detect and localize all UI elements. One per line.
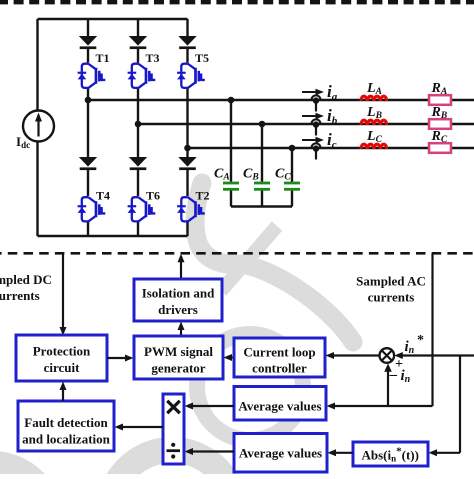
summing junction (380, 348, 395, 363)
transistor T1 (78, 64, 106, 89)
wire: divider result to Fault detection arrow (115, 424, 164, 431)
wire: Average values 1 to multiplier arrow (185, 403, 235, 410)
node CC tap (289, 145, 296, 152)
wire: in feedback arrow into summing junction (384, 364, 392, 407)
resistor RB (429, 119, 451, 129)
svg-text:*: * (417, 333, 424, 348)
svg-text:Abs(in*(t)): Abs(in*(t)) (362, 446, 419, 464)
svg-text:circuit: circuit (44, 360, 81, 375)
label Sampled DC currents (0, 272, 52, 303)
box PWM signal generator (134, 336, 223, 379)
node a (leg1 midpoint) (85, 97, 92, 104)
arrow ib (302, 113, 324, 120)
diode D1 (79, 36, 97, 49)
wire: DC bottom bus (38, 235, 188, 237)
svg-text:and localization: and localization (22, 432, 111, 447)
wire: Protection to PWM arrow (107, 355, 134, 362)
wire: sampled AC vertical line (431, 253, 433, 406)
svg-text:T1: T1 (96, 51, 110, 65)
box Current loop controller (234, 338, 325, 377)
svg-text:T5: T5 (195, 51, 209, 65)
transistor T5 (177, 64, 205, 89)
box Isolation and drivers (134, 279, 222, 321)
svg-text:generator: generator (151, 361, 205, 376)
wire: Abs to Average values 2 arrow (328, 449, 354, 456)
svg-text:currents: currents (0, 288, 40, 303)
box Average values 1 (234, 387, 326, 421)
wire: phase A line (88, 99, 474, 101)
wire: leg3 (186, 19, 188, 236)
label divide (167, 443, 181, 459)
label multiply (167, 401, 180, 413)
wire: in* reference line from right edge into summing junction (394, 352, 474, 359)
wire: Current loop to PWM arrow (224, 354, 235, 361)
probe ib (311, 119, 320, 135)
diode D2 (178, 157, 196, 170)
box Average values 2 (234, 434, 327, 473)
wire: left source branch (36, 19, 38, 236)
capacitor CC branch wire (291, 148, 293, 207)
svg-text:PWM signal: PWM signal (144, 344, 213, 359)
wire: feed to Average values 1 (327, 403, 433, 410)
svg-text:T4: T4 (96, 189, 110, 203)
arrow ia (302, 89, 324, 96)
box Fault detection and localization (18, 401, 114, 451)
svg-text:Isolation and: Isolation and (142, 286, 215, 301)
node CB tap (259, 121, 266, 128)
inductor LB (361, 120, 387, 125)
capacitor CA (223, 183, 239, 189)
box multiplier-divider (163, 394, 184, 464)
svg-text:T2: T2 (196, 189, 210, 203)
resistor RC (429, 143, 451, 153)
transistor T2 (177, 197, 205, 222)
inductor LA (361, 96, 387, 101)
svg-text:T3: T3 (146, 51, 160, 65)
box Abs (353, 442, 428, 466)
wire: capacitor star bus (231, 205, 292, 207)
probe ic (311, 143, 320, 159)
capacitor CA branch wire (230, 100, 232, 207)
diode D6 (129, 157, 147, 170)
probe ia (311, 95, 320, 111)
wire: Fault detection to Protection arrow (60, 382, 67, 402)
transistor T4 (78, 197, 106, 222)
svg-text:drivers: drivers (158, 302, 198, 317)
svg-text:Average values: Average values (238, 399, 321, 414)
svg-text:–: – (389, 367, 398, 383)
capacitor CC (284, 183, 300, 189)
svg-text:Current loop: Current loop (243, 345, 315, 360)
wire: DC top bus (38, 18, 188, 20)
diode D3 (129, 36, 147, 49)
label Sampled AC currents (356, 274, 426, 305)
svg-text:controller: controller (252, 361, 307, 376)
wire: sampled DC line with arrow into Protection (60, 253, 67, 335)
node b (leg2 midpoint) (135, 121, 142, 128)
capacitor CB branch wire (261, 124, 263, 207)
arrow ic (302, 137, 324, 144)
diode D4 (79, 157, 97, 170)
svg-text:Sampled AC: Sampled AC (356, 274, 426, 289)
diode D5 (178, 36, 196, 49)
wire: in* branch down to Abs (429, 356, 461, 457)
current source Idc (23, 111, 54, 142)
svg-text:Sampled DC: Sampled DC (0, 272, 52, 287)
dashed boundary between power and control sections (0, 252, 474, 255)
wire: PWM to Isolation arrow (178, 322, 185, 337)
capacitor CB (254, 183, 270, 189)
inductor LC (361, 144, 387, 149)
wire: leg1 upper (87, 19, 89, 236)
transistor T6 (128, 197, 156, 222)
dashed boundary (top) (0, 0, 474, 4)
node c (leg3 midpoint) (184, 145, 191, 152)
box Protection circuit (16, 335, 107, 381)
svg-text:Fault detection: Fault detection (24, 415, 108, 430)
wire: Average values 2 to divider arrow (185, 448, 235, 455)
transistor T3 (128, 64, 156, 89)
svg-text:currents: currents (368, 290, 415, 305)
svg-text:Protection: Protection (33, 344, 91, 359)
wire: summing junction to Current loop arrow (326, 352, 380, 359)
resistor RA (429, 95, 451, 105)
wire: phase B line (138, 123, 474, 125)
node CA tap (228, 97, 235, 104)
wire: phase C line (188, 147, 474, 149)
wire: isolation output arrow to dashed line (178, 254, 185, 279)
wire: leg2 (137, 19, 139, 236)
svg-text:T6: T6 (146, 189, 160, 203)
svg-text:Average values: Average values (239, 446, 322, 461)
